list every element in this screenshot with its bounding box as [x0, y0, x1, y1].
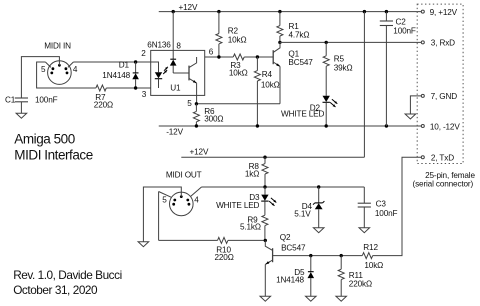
wire +12V feed down — [363, 12, 365, 158]
label U1 — [170, 84, 181, 93]
transistor Q1 collector — [273, 42, 280, 52]
junction -12V R6 — [195, 124, 198, 127]
label pin 2 — [141, 49, 146, 58]
resistor R8 value — [245, 169, 259, 178]
label 7 GND — [431, 92, 458, 101]
ground at connector — [405, 114, 416, 119]
transistor Q2 label — [280, 233, 291, 242]
wire R10 to Q2 — [228, 239, 265, 241]
svg-text:220Ω: 220Ω — [94, 100, 113, 109]
wire MIDI OUT pin4 to C3 — [202, 186, 365, 188]
LED D2 label — [310, 103, 321, 112]
capacitor C3 value — [375, 209, 398, 218]
MIDI IN pin upper-right — [65, 67, 68, 70]
wire RxD — [280, 41, 421, 43]
LED D3 — [261, 187, 268, 215]
svg-text:1N4148: 1N4148 — [276, 276, 304, 285]
svg-text:MIDI Interface: MIDI Interface — [14, 148, 92, 163]
capacitor C2 label — [396, 18, 407, 27]
capacitor C2 top lead — [385, 12, 387, 21]
svg-text:2, TxD: 2, TxD — [431, 154, 454, 163]
wire R12 to TxD — [373, 157, 422, 255]
svg-text:-12V: -12V — [166, 128, 183, 137]
label pin 6 — [209, 48, 214, 57]
label 6N136 — [147, 41, 171, 50]
junction on +12V rail (R2) — [217, 10, 220, 13]
MIDI OUT DIN connector shell — [170, 192, 194, 216]
terminal 9 +12V — [421, 10, 424, 13]
svg-text:10, -12V: 10, -12V — [430, 122, 460, 131]
svg-text:WHITE LED: WHITE LED — [216, 201, 259, 210]
svg-text:220Ω: 220Ω — [215, 253, 234, 262]
svg-text:10kΩ: 10kΩ — [261, 80, 280, 89]
svg-text:8: 8 — [176, 41, 181, 50]
MIDI OUT pin 2 (top centre) — [180, 195, 183, 198]
ground below C1 — [16, 113, 27, 118]
diode D1 value — [102, 71, 130, 80]
wire GND stub — [410, 96, 421, 114]
ground below D5 — [306, 296, 317, 301]
zener D4 value — [294, 210, 311, 219]
wire +12V lower rail — [181, 156, 364, 158]
svg-text:MIDI IN: MIDI IN — [44, 42, 71, 51]
U1 phototransistor emitter — [189, 78, 197, 103]
resistor R3 (zigzag) — [233, 54, 244, 60]
diode D5 label — [294, 268, 305, 277]
MIDI IN pin 4 dot — [66, 72, 69, 75]
label pin 4 MIDI OUT — [194, 196, 199, 205]
junction -12V D2 — [325, 124, 328, 127]
wire MIDI IN pin5 diagonal — [45, 62, 51, 67]
resistor R1 — [277, 12, 283, 43]
diode D5 — [308, 256, 315, 297]
svg-text:10kΩ: 10kΩ — [364, 261, 383, 270]
label pin 5 MIDI IN — [41, 65, 46, 74]
svg-text:6: 6 — [209, 48, 214, 57]
resistor R2 label — [228, 27, 239, 36]
ground below R11 — [336, 296, 347, 301]
svg-text:39kΩ: 39kΩ — [334, 64, 353, 73]
svg-text:5: 5 — [187, 99, 192, 108]
label pin 5 — [187, 99, 192, 108]
wire R7 to U1 pin3 — [106, 87, 150, 89]
resistor R7 value — [94, 100, 113, 109]
svg-text:100nF: 100nF — [35, 96, 58, 105]
label 10 -12V — [430, 122, 460, 131]
U1 internal LED — [155, 72, 162, 88]
junction D5 top — [309, 254, 312, 257]
resistor R2 — [216, 12, 222, 57]
svg-text:October 31, 2020: October 31, 2020 — [13, 283, 98, 297]
wire C1 to ground — [20, 102, 22, 113]
footer date — [13, 283, 98, 297]
label +12V lower — [190, 147, 209, 156]
ground MIDI OUT shield — [138, 242, 149, 247]
junction on +12V rail (C2) — [385, 10, 388, 13]
zener D4 label — [302, 202, 313, 211]
capacitor C3 label — [376, 200, 387, 209]
label 9 +12V — [430, 8, 458, 17]
diode D5 value — [276, 276, 304, 285]
LED D3 arrow 1 — [271, 198, 276, 203]
terminal 3 RxD — [421, 41, 424, 44]
wire MIDI OUT pin5 diagonal — [159, 192, 172, 198]
transistor Q1 emitter — [273, 62, 280, 104]
LED D2 arrow 1 — [332, 99, 337, 104]
title Amiga 500 — [14, 131, 75, 146]
resistor R6 label — [204, 107, 215, 116]
resistor R4 label — [262, 70, 273, 79]
resistor R7 label — [95, 93, 106, 102]
resistor R9 label — [247, 215, 258, 224]
capacitor C1 label — [5, 96, 16, 105]
label pin 8 — [176, 41, 181, 50]
wire MIDI IN shield to C1 — [21, 57, 59, 98]
LED D3 value — [216, 201, 259, 210]
MIDI OUT pin upper-right — [186, 199, 189, 202]
wire MIDI OUT pin5 down — [158, 192, 160, 241]
resistor R12 value — [364, 261, 383, 270]
resistor R11 — [338, 256, 344, 297]
U1 light arrow 1 — [164, 67, 168, 71]
svg-text:+12V: +12V — [179, 3, 198, 12]
transistor Q2 bar — [272, 248, 274, 262]
resistor R10 label — [216, 246, 231, 255]
label serial connector — [413, 180, 474, 189]
label MIDI OUT — [166, 171, 202, 180]
terminal 2 TxD — [421, 156, 424, 159]
wire MIDI IN top edge right — [73, 61, 150, 63]
svg-text:100nF: 100nF — [375, 209, 398, 218]
resistor R8 — [262, 157, 268, 187]
junction on +12V rail (U1 pin 8 feed) — [172, 10, 175, 13]
svg-text:1kΩ: 1kΩ — [245, 169, 259, 178]
resistor R6 value — [204, 115, 223, 124]
terminal 10 -12V — [421, 125, 424, 128]
label pin 3 — [142, 90, 147, 99]
svg-text:4: 4 — [194, 196, 199, 205]
label 25-pin female — [425, 171, 475, 180]
svg-text:6N136: 6N136 — [147, 41, 171, 50]
resistor R1 label — [289, 22, 300, 31]
label MIDI IN — [44, 42, 71, 51]
junction on +12V rail (down feed) — [363, 10, 366, 13]
MIDI IN DIN connector shell — [48, 61, 72, 85]
junction R5 top — [325, 41, 328, 44]
svg-text:BC547: BC547 — [288, 58, 313, 67]
label pin 4 MIDI IN — [73, 65, 78, 74]
MIDI OUT pin 5 dot — [172, 203, 175, 206]
U1 internal LED wire — [151, 62, 159, 72]
junction pin5 — [195, 102, 198, 105]
capacitor C3 bottom lead — [363, 207, 365, 228]
svg-text:+12V: +12V — [190, 147, 209, 156]
U1 light arrow 2 — [163, 70, 167, 74]
wire MIDI IN pin4 diagonal — [68, 62, 74, 67]
resistor R5 — [323, 42, 329, 95]
wire MIDI OUT shield — [143, 187, 181, 242]
wire U1 pin5 to Q1 emitter — [196, 103, 280, 105]
transistor Q1 label — [288, 49, 299, 58]
junction -12V C2 — [385, 124, 388, 127]
wire R3 to Q1 base — [244, 56, 273, 58]
MIDI IN pin 2 (top centre) — [58, 64, 61, 67]
LED D2 arrow 2 — [330, 102, 335, 107]
transistor Q2 value — [281, 244, 306, 253]
resistor R11 label — [349, 271, 364, 280]
wire Q2 base — [273, 255, 363, 257]
LED D2 — [323, 96, 330, 126]
svg-text:C2: C2 — [396, 18, 407, 27]
junction R4 top — [256, 55, 259, 58]
wire U1 pin 8 feed — [172, 12, 174, 60]
transistor Q1 bar — [272, 50, 274, 64]
capacitor C2 plates — [380, 21, 393, 26]
label 3 RxD — [431, 39, 455, 48]
zener D4 — [313, 187, 324, 228]
svg-text:Q2: Q2 — [280, 233, 291, 242]
svg-text:10kΩ: 10kΩ — [229, 68, 248, 77]
junction R8 bottom — [263, 185, 266, 188]
transistor Q2 collector — [265, 240, 272, 250]
svg-text:Rev. 1.0, Davide Bucci: Rev. 1.0, Davide Bucci — [13, 268, 122, 282]
ground below C3 — [359, 228, 370, 233]
svg-text:BC547: BC547 — [281, 244, 306, 253]
label -12V — [166, 128, 183, 137]
svg-text:R5: R5 — [334, 54, 345, 63]
U1 phototransistor collector — [189, 57, 197, 68]
svg-text:R2: R2 — [228, 27, 239, 36]
resistor R7 (zigzag) — [96, 85, 106, 91]
junction R11 top — [340, 254, 343, 257]
junction D1 top — [134, 60, 137, 63]
resistor R3 label — [230, 61, 241, 70]
wire U1 pin6 to R3 — [205, 56, 234, 58]
svg-text:5.1kΩ: 5.1kΩ — [240, 222, 261, 231]
capacitor C2 bottom lead — [385, 26, 387, 127]
junction D4 top — [317, 185, 320, 188]
svg-text:100nF: 100nF — [393, 27, 416, 36]
op-amp U1 6N136 box — [151, 50, 205, 95]
transistor Q2 emitter — [265, 260, 272, 296]
junction R2 bottom — [217, 55, 220, 58]
transistor Q1 value — [288, 58, 313, 67]
MIDI OUT pin upper-left — [173, 199, 176, 202]
wire MIDI OUT bottom — [159, 239, 218, 241]
svg-text:2: 2 — [141, 49, 146, 58]
resistor R4 — [254, 57, 260, 126]
svg-text:(serial connector): (serial connector) — [413, 180, 474, 189]
junction on +12V rail (R1) — [278, 10, 281, 13]
node +12V label — [179, 3, 198, 12]
wire +12V top rail — [159, 11, 422, 13]
svg-text:300Ω: 300Ω — [204, 115, 223, 124]
svg-text:3, RxD: 3, RxD — [431, 39, 455, 48]
MIDI IN pin upper-left — [52, 67, 55, 70]
svg-text:R1: R1 — [289, 22, 300, 31]
resistor R9 — [262, 215, 268, 240]
svg-text:3: 3 — [142, 90, 147, 99]
svg-text:220kΩ: 220kΩ — [349, 280, 372, 289]
resistor R6 — [193, 104, 199, 126]
resistor R2 value — [228, 35, 247, 44]
capacitor C3 plates — [358, 203, 371, 207]
svg-text:9, +12V: 9, +12V — [430, 8, 458, 17]
resistor R11 value — [349, 280, 372, 289]
diode D1 — [132, 62, 139, 88]
svg-text:D1: D1 — [119, 60, 130, 69]
label pin 5 MIDI OUT — [162, 196, 167, 205]
svg-text:R4: R4 — [262, 70, 273, 79]
svg-text:WHITE LED: WHITE LED — [281, 109, 324, 118]
svg-text:7, GND: 7, GND — [431, 92, 458, 101]
resistor R5 label — [334, 54, 345, 63]
svg-text:MIDI OUT: MIDI OUT — [166, 171, 202, 180]
resistor R12 (zigzag) — [362, 253, 372, 259]
MIDI OUT pin 4 dot — [188, 203, 191, 206]
capacitor C3 top lead — [363, 187, 365, 203]
ground below Q2 emitter — [260, 296, 271, 301]
resistor R3 value — [229, 68, 248, 77]
resistor R8 label — [249, 162, 260, 171]
svg-text:U1: U1 — [170, 84, 181, 93]
svg-text:C1: C1 — [5, 96, 16, 105]
svg-text:4: 4 — [73, 65, 78, 74]
svg-text:5: 5 — [162, 196, 167, 205]
wire MIDI IN top edge left — [37, 62, 96, 88]
label 2 TxD — [431, 154, 454, 163]
junction R8 top — [263, 156, 266, 159]
terminal 7 GND — [421, 94, 424, 97]
junction D1 bottom — [134, 86, 137, 89]
wire -12V rail — [159, 125, 422, 127]
diode D1 label — [119, 60, 130, 69]
capacitor C2 value — [393, 27, 416, 36]
svg-text:4.7kΩ: 4.7kΩ — [289, 31, 310, 40]
resistor R12 label — [363, 243, 378, 252]
svg-text:Amiga 500: Amiga 500 — [14, 131, 75, 146]
junction -12V R4 — [256, 124, 259, 127]
U1 phototransistor bar — [188, 66, 190, 81]
svg-text:R12: R12 — [363, 243, 378, 252]
wire MIDI OUT pin4 diagonal — [191, 187, 202, 196]
resistor R1 value — [289, 31, 310, 40]
MIDI IN pin 5 dot — [50, 72, 53, 75]
junction Q2 collector node — [264, 239, 267, 242]
svg-text:5: 5 — [41, 65, 46, 74]
svg-text:5.1V: 5.1V — [294, 210, 311, 219]
LED D3 arrow 2 — [269, 201, 274, 206]
svg-text:C3: C3 — [376, 200, 387, 209]
LED D2 value — [281, 109, 324, 118]
ground below D4 — [313, 228, 324, 233]
U1 internal photodiode — [170, 59, 189, 73]
LED D3 label — [249, 193, 260, 202]
resistor R10 value — [215, 253, 234, 262]
resistor R4 value — [261, 80, 280, 89]
resistor R5 value — [334, 64, 353, 73]
resistor R10 (zigzag) — [218, 237, 228, 243]
resistor R9 value — [240, 222, 261, 231]
junction Q1 collector node — [278, 41, 281, 44]
footer revision — [13, 268, 122, 282]
svg-text:1N4148: 1N4148 — [102, 71, 130, 80]
capacitor C1 plates — [15, 98, 28, 102]
capacitor C1 value — [35, 96, 58, 105]
svg-text:10kΩ: 10kΩ — [228, 35, 247, 44]
title MIDI Interface — [14, 148, 92, 163]
25-pin connector dashed box — [417, 4, 463, 163]
